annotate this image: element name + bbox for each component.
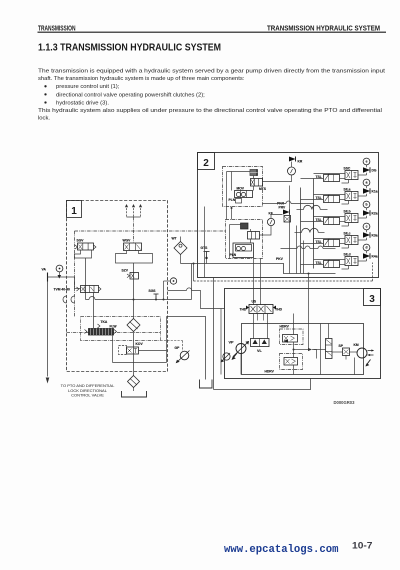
svg-text:US: US [252, 300, 257, 304]
inner hydrostatic block [242, 324, 364, 375]
box 1 number label [67, 201, 82, 218]
drop from valve bottom row 2 [348, 223, 350, 227]
box 3 number label [364, 289, 381, 306]
solenoid symbol DG [363, 167, 370, 172]
svg-text:a: a [366, 181, 368, 185]
svg-text:e: e [366, 160, 368, 164]
return gallery to tank T2 [167, 317, 206, 380]
lubrication dash-dot enclosure [81, 317, 161, 341]
solenoid KF symbol [283, 210, 290, 215]
svg-text:THD: THD [240, 308, 247, 312]
wire valve-to-solenoid row 4 [358, 260, 367, 262]
svg-text:c: c [366, 225, 368, 229]
WGV outlet line [133, 263, 135, 300]
bullet 3 [44, 101, 46, 103]
bottom return run [214, 379, 311, 390]
TVM outlet [75, 288, 81, 290]
svg-text:K1a: K1a [372, 190, 378, 194]
svg-text:PLN: PLN [229, 198, 236, 202]
hose break symbol upper [304, 205, 321, 209]
pressure switch circle [170, 278, 176, 284]
pipes valve US to pump [253, 314, 255, 339]
svg-text:10-7: 10-7 [352, 541, 373, 551]
svg-text:KM: KM [354, 343, 359, 347]
drop from box2 left to bottom [204, 207, 206, 278]
svg-text:SGS: SGS [149, 289, 157, 293]
solenoid symbol K1a [363, 188, 370, 193]
wire valve-to-solenoid row 2 [358, 217, 367, 219]
solenoid symbol K2a [363, 210, 370, 215]
svg-text:CONTROL VALVE: CONTROL VALVE [71, 393, 104, 398]
svg-text:K2a: K2a [372, 212, 378, 216]
filter F1 (diamond) [127, 319, 140, 332]
solenoid symbol K3a [363, 232, 370, 237]
wire valve-to-solenoid row 3 [358, 239, 367, 241]
svg-text:HDRV: HDRV [280, 325, 290, 329]
inner dash-dot enclosure top [75, 230, 226, 232]
suction line to PTO valve [47, 282, 49, 377]
svg-text:HDRV: HDRV [265, 370, 275, 374]
svg-text:hydrostatic drive (3).: hydrostatic drive (3). [56, 100, 109, 106]
manifold supply line A [300, 188, 302, 274]
svg-text:SGV: SGV [77, 239, 85, 243]
valve block with enclosure [233, 243, 254, 258]
svg-text:YHD: YHD [275, 308, 283, 312]
pilot gauge circle for KF [267, 218, 274, 225]
pressure control unit box 1 (dashed) [67, 201, 168, 372]
pilot line (dashed) [193, 264, 195, 282]
svg-text:TRANSMISSION HYDRAULIC SYSTEM: TRANSMISSION HYDRAULIC SYSTEM [267, 23, 380, 32]
filter grid symbol in PKR assembly [250, 170, 258, 176]
svg-text:GP: GP [175, 346, 181, 350]
manifold supply line B [313, 179, 315, 269]
pressure test circle e [363, 158, 370, 165]
modulating valve assembly PKV (dash-dot enclosure) [226, 220, 263, 259]
wire TSL-to-valve row 1 [340, 199, 346, 201]
svg-text:lock.: lock. [38, 115, 50, 121]
wire TSL-to-valve row 0 [340, 178, 346, 180]
solenoid KR symbol [289, 157, 296, 162]
svg-text:SSC: SSC [344, 167, 351, 171]
drain hook after feed arrow [314, 350, 317, 359]
relief valve PRV body [284, 216, 291, 223]
svg-text:TKA: TKA [101, 320, 108, 324]
three vent arrows [126, 207, 128, 217]
svg-text:1: 1 [71, 206, 77, 217]
svg-text:pressure control unit (1);: pressure control unit (1); [56, 84, 120, 90]
svg-text:3: 3 [369, 294, 375, 305]
svg-text:PKV: PKV [276, 257, 284, 261]
inner divider line [320, 324, 322, 375]
drop from valve bottom row 4 [348, 266, 350, 270]
pipe filter to lower filter [133, 332, 135, 376]
pilot gauge circle for KR [288, 167, 296, 175]
svg-text:SILa: SILa [344, 188, 351, 192]
svg-text:TRANSMISSION: TRANSMISSION [38, 23, 76, 32]
svg-text:WT: WT [172, 237, 177, 241]
wire TSL-to-valve row 2 [340, 221, 346, 223]
svg-text:The transmission is equipped w: The transmission is equipped with a hydr… [38, 69, 385, 75]
wire TSL-to-valve row 3 [340, 243, 346, 245]
return wire with bump [168, 290, 187, 292]
supply wire box1 to box2 [181, 264, 336, 274]
assembly internal pipes [226, 172, 228, 207]
svg-text:MOV: MOV [237, 187, 245, 191]
tank T2 [200, 380, 213, 389]
svg-text:PRV: PRV [279, 206, 287, 210]
tank T1 [122, 391, 147, 397]
WGV loop pipe [116, 251, 153, 264]
VP drain to sump rail [240, 354, 242, 375]
drop from valve bottom row 0 [348, 180, 350, 184]
shuttle top pipe [328, 324, 330, 339]
manifold feed stubs [301, 178, 324, 180]
svg-text:d: d [365, 246, 367, 250]
wire valve-to-solenoid row 1 [358, 195, 367, 197]
lube drain run [113, 362, 167, 364]
header wire across top of manifold [263, 203, 287, 205]
pressure test circle a [363, 179, 370, 186]
wire PKV to KF [260, 226, 272, 236]
svg-text:SP: SP [339, 344, 344, 348]
svg-text:D000GR03: D000GR03 [334, 400, 356, 405]
inner enclosure bottom line [67, 332, 161, 334]
svg-text:K4a: K4a [372, 255, 378, 259]
charge feed to shuttle [294, 349, 309, 351]
branch drop to gallery [191, 264, 193, 300]
charge pump pair VL [251, 339, 270, 347]
pressure test circle d [363, 244, 370, 251]
solenoid valve in PKV [248, 232, 260, 240]
filter F2 (diamond) [128, 376, 140, 388]
box 2 number label [198, 153, 215, 170]
bullet 2 [44, 93, 46, 95]
bullet 1 [44, 85, 46, 87]
drain drop x308 into box3 [308, 274, 310, 350]
svg-text:b: b [365, 203, 367, 207]
svg-text:SZV: SZV [122, 269, 129, 273]
svg-text:1.1.3 TRANSMISSION HYDRAULIC S: 1.1.3 TRANSMISSION HYDRAULIC SYSTEM [38, 43, 221, 54]
hydrostatic drive box 3 [225, 289, 381, 379]
svg-text:KOV: KOV [136, 342, 144, 346]
svg-text:MTS: MTS [259, 187, 267, 191]
drain collector drop [213, 278, 215, 390]
svg-text:shaft. The transmission hydrau: shaft. The transmission hydraulic system… [38, 76, 245, 82]
feed lines from PKV assembly down to servo valve [253, 259, 255, 305]
svg-text:K3a: K3a [372, 234, 378, 238]
modulating valve assembly PKR (dash-dot enclosure) [223, 167, 263, 207]
wire TSL-to-valve row 4 [340, 264, 346, 266]
crossover bumps on box1 edge [63, 296, 67, 303]
SP to motor connector [350, 351, 358, 353]
motor drain [354, 358, 356, 375]
vent manifold bar [127, 216, 141, 218]
svg-text:SILc: SILc [344, 232, 351, 236]
pressure control assembly box 2 [198, 153, 379, 278]
svg-text:KR: KR [298, 160, 303, 164]
drop from valve bottom row 3 [348, 245, 350, 249]
gallery drop to filter [133, 300, 135, 319]
svg-text:VP: VP [229, 341, 235, 345]
valve MOV with pilot circles [235, 191, 253, 198]
svg-text:WGV: WGV [123, 239, 132, 243]
svg-text:2: 2 [203, 158, 209, 169]
HP loop pipes [293, 314, 295, 335]
high pressure relief valve HDRV (lower) [280, 354, 303, 370]
svg-text:SILb: SILb [344, 210, 351, 214]
wire from MTS to KR [263, 175, 292, 182]
drops from assembly 1 to assembly 2 [226, 207, 228, 220]
vent drop line (dash-dot) [133, 217, 135, 243]
lube outlet arrows [85, 330, 117, 334]
svg-text:FLW: FLW [110, 325, 118, 329]
solenoid valve MTS [251, 179, 263, 187]
shuttle valve [326, 339, 333, 359]
drain drops from assemblies [289, 186, 291, 274]
solenoid symbol K4a [363, 253, 370, 258]
svg-text:DG: DG [372, 169, 377, 173]
svg-text:www.epcatalogs.com: www.epcatalogs.com [224, 544, 338, 556]
drop from valve bottom row 1 [348, 201, 350, 205]
wire valve-to-solenoid row 0 [358, 174, 367, 176]
svg-text:VL: VL [257, 349, 263, 353]
filter grid symbol in PKV assembly [241, 223, 249, 229]
main low pressure gallery [86, 299, 90, 301]
pressure test circle c [363, 223, 370, 230]
svg-text:SILd: SILd [344, 253, 351, 257]
auxiliary pump symbol [223, 353, 230, 360]
collector wire with crossover bumps [281, 248, 298, 250]
header rule [38, 31, 387, 33]
pressure test circle b [363, 201, 370, 208]
svg-text:directional control valve oper: directional control valve operating powe… [56, 92, 205, 98]
svg-text:This hydraulic system also sup: This hydraulic system also supplies oil … [38, 108, 382, 114]
drain drop at box3 left [220, 309, 222, 375]
svg-text:TVM 40-40: TVM 40-40 [54, 288, 70, 292]
svg-text:PLN: PLN [230, 253, 237, 257]
SGV outlet line [85, 258, 87, 300]
hose break symbol lower [302, 228, 319, 232]
svg-text:VA: VA [42, 268, 47, 272]
pipes in PKV assembly [229, 225, 231, 259]
SGV loop pipe [75, 250, 92, 258]
